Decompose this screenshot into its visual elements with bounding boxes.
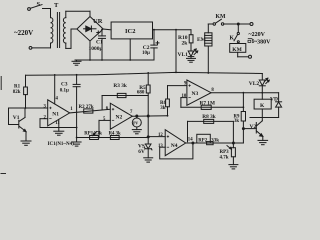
svg-text:10: 10: [182, 94, 187, 99]
svg-text:PV: PV: [133, 121, 138, 125]
svg-text:V1: V1: [13, 115, 20, 121]
svg-text:~220V: ~220V: [249, 32, 266, 38]
svg-text:IC1(N1~N4): IC1(N1~N4): [48, 142, 75, 147]
svg-text:C3: C3: [61, 81, 68, 87]
svg-text:R1: R1: [14, 84, 21, 89]
svg-text:6V: 6V: [138, 149, 145, 155]
svg-text:R4 3k: R4 3k: [109, 132, 121, 137]
svg-text:N1: N1: [52, 111, 59, 117]
svg-text:VL2: VL2: [249, 81, 260, 87]
svg-text:K: K: [230, 36, 235, 42]
svg-text:~220V: ~220V: [14, 29, 33, 37]
svg-text:T: T: [54, 2, 59, 9]
svg-text:RP3: RP3: [220, 150, 230, 155]
svg-text:33k: 33k: [211, 138, 219, 143]
svg-text:0.1μ: 0.1μ: [60, 88, 69, 93]
svg-text:4.7k: 4.7k: [220, 155, 229, 160]
svg-text:S: S: [37, 1, 41, 8]
svg-text:IC2: IC2: [125, 28, 135, 35]
svg-text:R7 1M: R7 1M: [200, 101, 215, 107]
svg-text:KM: KM: [232, 47, 242, 53]
svg-text:14: 14: [188, 137, 193, 142]
svg-text:R8 3k: R8 3k: [202, 114, 215, 120]
svg-text:11: 11: [55, 121, 60, 126]
svg-text:2k: 2k: [182, 40, 189, 46]
svg-text:V2: V2: [250, 124, 257, 130]
svg-text:13: 13: [158, 144, 163, 149]
svg-text:C1: C1: [96, 40, 103, 46]
svg-text:VL1: VL1: [178, 52, 189, 58]
svg-text:1000μ: 1000μ: [89, 46, 104, 52]
svg-text:3k: 3k: [160, 106, 166, 111]
svg-text:12: 12: [158, 133, 163, 138]
svg-text:VD: VD: [270, 97, 278, 103]
svg-text:~380V: ~380V: [254, 40, 271, 46]
svg-text:N2: N2: [116, 115, 123, 121]
svg-text:82k: 82k: [13, 90, 21, 95]
svg-text:RP1: RP1: [84, 132, 93, 137]
svg-text:3k: 3k: [234, 119, 239, 124]
svg-text:K: K: [260, 103, 265, 109]
svg-text:N4: N4: [171, 143, 178, 149]
svg-text:UR: UR: [93, 18, 103, 25]
svg-text:R2 27k: R2 27k: [79, 105, 94, 110]
svg-text:N3: N3: [192, 91, 199, 97]
svg-text:KM: KM: [216, 14, 227, 20]
svg-text:RP2: RP2: [198, 138, 207, 143]
svg-text:4.7k: 4.7k: [93, 132, 102, 137]
svg-text:680: 680: [137, 91, 145, 96]
svg-text:10μ: 10μ: [142, 51, 150, 56]
svg-text:EM: EM: [197, 37, 207, 43]
svg-text:R3 3k: R3 3k: [113, 83, 126, 89]
